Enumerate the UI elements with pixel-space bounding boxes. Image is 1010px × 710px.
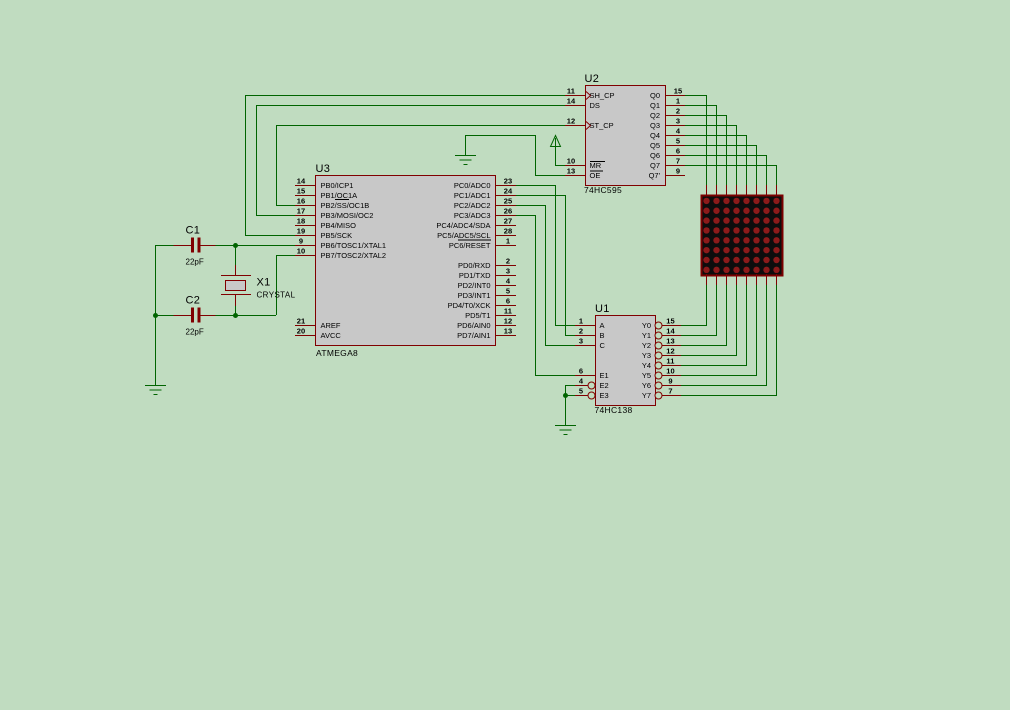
- svg-text:1: 1: [579, 317, 583, 326]
- svg-text:PC4/ADC4/SDA: PC4/ADC4/SDA: [436, 221, 490, 230]
- svg-text:Q3: Q3: [650, 121, 660, 130]
- svg-text:PB7/TOSC2/XTAL2: PB7/TOSC2/XTAL2: [321, 251, 387, 260]
- svg-text:U1: U1: [595, 303, 610, 315]
- svg-text:11: 11: [666, 357, 674, 366]
- svg-text:PB0/ICP1: PB0/ICP1: [321, 181, 354, 190]
- svg-text:4: 4: [676, 127, 681, 136]
- svg-text:Q0: Q0: [650, 91, 660, 100]
- svg-text:Q1: Q1: [650, 101, 660, 110]
- svg-text:19: 19: [297, 227, 306, 236]
- svg-text:10: 10: [666, 367, 675, 376]
- svg-text:PD4/T0/XCK: PD4/T0/XCK: [448, 301, 491, 310]
- svg-text:23: 23: [504, 177, 513, 186]
- svg-text:18: 18: [297, 217, 306, 226]
- svg-text:3: 3: [676, 117, 680, 126]
- svg-text:X1: X1: [257, 277, 271, 289]
- svg-text:PC6/RESET: PC6/RESET: [449, 241, 491, 250]
- svg-text:B: B: [600, 331, 605, 340]
- svg-text:28: 28: [504, 227, 513, 236]
- svg-text:13: 13: [504, 327, 513, 336]
- svg-text:MR: MR: [590, 161, 602, 170]
- svg-text:U3: U3: [316, 163, 331, 175]
- svg-text:5: 5: [506, 287, 510, 296]
- svg-text:Q4: Q4: [650, 131, 660, 140]
- svg-text:DS: DS: [590, 101, 600, 110]
- svg-text:A: A: [600, 321, 605, 330]
- svg-text:Q5: Q5: [650, 141, 660, 150]
- svg-text:13: 13: [567, 167, 576, 176]
- svg-text:Y0: Y0: [642, 321, 651, 330]
- svg-text:PC2/ADC2: PC2/ADC2: [454, 201, 491, 210]
- svg-text:11: 11: [567, 87, 575, 96]
- svg-text:3: 3: [506, 267, 510, 276]
- svg-text:Q2: Q2: [650, 111, 660, 120]
- svg-text:Q7: Q7: [650, 161, 660, 170]
- svg-text:C: C: [600, 341, 606, 350]
- svg-text:Y2: Y2: [642, 341, 651, 350]
- svg-text:PD1/TXD: PD1/TXD: [459, 271, 491, 280]
- svg-text:7: 7: [676, 157, 680, 166]
- svg-text:PB4/MISO: PB4/MISO: [321, 221, 357, 230]
- svg-text:Q7': Q7': [649, 171, 661, 180]
- svg-text:1: 1: [676, 97, 680, 106]
- svg-text:Q6: Q6: [650, 151, 660, 160]
- svg-text:AREF: AREF: [321, 321, 341, 330]
- svg-text:27: 27: [504, 217, 513, 226]
- svg-text:15: 15: [297, 187, 306, 196]
- svg-text:74HC595: 74HC595: [584, 185, 622, 195]
- svg-text:ATMEGA8: ATMEGA8: [316, 348, 358, 358]
- svg-text:Y3: Y3: [642, 351, 651, 360]
- svg-text:12: 12: [504, 317, 513, 326]
- svg-text:74HC138: 74HC138: [595, 405, 633, 415]
- svg-text:E3: E3: [600, 391, 609, 400]
- svg-text:6: 6: [676, 147, 680, 156]
- svg-text:PB6/TOSC1/XTAL1: PB6/TOSC1/XTAL1: [321, 241, 387, 250]
- svg-text:C2: C2: [186, 295, 201, 307]
- svg-text:PD2/INT0: PD2/INT0: [458, 281, 491, 290]
- svg-text:PD6/AIN0: PD6/AIN0: [457, 321, 490, 330]
- svg-text:2: 2: [676, 107, 680, 116]
- svg-text:PB2/SS/OC1B: PB2/SS/OC1B: [321, 201, 370, 210]
- svg-text:21: 21: [297, 317, 306, 326]
- svg-text:PC0/ADC0: PC0/ADC0: [454, 181, 491, 190]
- svg-text:PD3/INT1: PD3/INT1: [458, 291, 491, 300]
- svg-text:2: 2: [579, 327, 583, 336]
- svg-text:20: 20: [297, 327, 306, 336]
- svg-text:2: 2: [506, 257, 510, 266]
- svg-text:Y7: Y7: [642, 391, 651, 400]
- svg-text:10: 10: [567, 157, 576, 166]
- svg-text:24: 24: [504, 187, 513, 196]
- svg-text:Y6: Y6: [642, 381, 651, 390]
- svg-text:CRYSTAL: CRYSTAL: [257, 291, 296, 300]
- svg-text:PC5/ADC5/SCL: PC5/ADC5/SCL: [437, 231, 490, 240]
- svg-text:U2: U2: [585, 73, 600, 85]
- svg-text:4: 4: [506, 277, 511, 286]
- svg-text:6: 6: [506, 297, 510, 306]
- svg-text:15: 15: [674, 87, 683, 96]
- svg-text:5: 5: [676, 137, 680, 146]
- svg-text:1: 1: [506, 237, 510, 246]
- svg-text:9: 9: [668, 377, 672, 386]
- svg-text:25: 25: [504, 197, 513, 206]
- svg-text:6: 6: [579, 367, 583, 376]
- svg-text:16: 16: [297, 197, 306, 206]
- svg-text:PC1/ADC1: PC1/ADC1: [454, 191, 491, 200]
- svg-text:10: 10: [297, 247, 306, 256]
- svg-text:C1: C1: [186, 225, 201, 237]
- svg-text:ST_CP: ST_CP: [590, 121, 614, 130]
- svg-text:PB5/SCK: PB5/SCK: [321, 231, 353, 240]
- svg-text:14: 14: [297, 177, 306, 186]
- svg-text:14: 14: [666, 327, 675, 336]
- svg-text:PB3/MOSI/OC2: PB3/MOSI/OC2: [321, 211, 374, 220]
- svg-text:12: 12: [666, 347, 675, 356]
- svg-text:7: 7: [668, 387, 672, 396]
- svg-text:Y5: Y5: [642, 371, 651, 380]
- svg-text:OE: OE: [590, 171, 601, 180]
- svg-text:Y1: Y1: [642, 331, 651, 340]
- svg-text:PD7/AIN1: PD7/AIN1: [457, 331, 490, 340]
- svg-text:11: 11: [504, 307, 512, 316]
- svg-text:5: 5: [579, 387, 583, 396]
- svg-text:PB1/OC1A: PB1/OC1A: [321, 191, 358, 200]
- svg-text:22pF: 22pF: [186, 258, 204, 267]
- svg-text:3: 3: [579, 337, 583, 346]
- svg-text:PC3/ADC3: PC3/ADC3: [454, 211, 491, 220]
- svg-text:14: 14: [567, 97, 576, 106]
- svg-text:12: 12: [567, 117, 576, 126]
- svg-text:E2: E2: [600, 381, 609, 390]
- svg-text:9: 9: [676, 167, 680, 176]
- svg-text:15: 15: [666, 317, 675, 326]
- svg-text:PD5/T1: PD5/T1: [465, 311, 490, 320]
- svg-text:PD0/RXD: PD0/RXD: [458, 261, 491, 270]
- svg-text:17: 17: [297, 207, 306, 216]
- svg-text:E1: E1: [600, 371, 609, 380]
- svg-text:Y4: Y4: [642, 361, 651, 370]
- svg-text:AVCC: AVCC: [321, 331, 342, 340]
- svg-text:SH_CP: SH_CP: [590, 91, 615, 100]
- svg-text:26: 26: [504, 207, 513, 216]
- svg-text:22pF: 22pF: [186, 328, 204, 337]
- svg-text:4: 4: [579, 377, 584, 386]
- svg-text:13: 13: [666, 337, 675, 346]
- svg-text:9: 9: [299, 237, 303, 246]
